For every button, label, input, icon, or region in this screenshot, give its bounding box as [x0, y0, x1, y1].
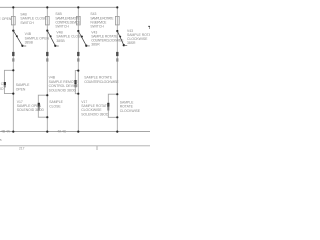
- contact block on rung1 branch: [4, 82, 6, 85]
- svg-text:V43SAMPLE ROTATECLOCKWISE38SR: V43SAMPLE ROTATECLOCKWISE38SR: [127, 29, 150, 45]
- svg-text:V4BSAMPLE REMOTECONTROL DEVICE: V4BSAMPLE REMOTECONTROL DEVICESOLENOID 3…: [49, 75, 80, 92]
- terminal block pair rung3: [77, 52, 79, 62]
- node rung2 branch bottom: [46, 116, 48, 118]
- svg-text:SAMPLEOPEN: SAMPLEOPEN: [16, 83, 30, 91]
- node rung1 branch bottom: [12, 93, 14, 95]
- svg-text:S4BSAMPLE CLOSESWITCH: S4BSAMPLE CLOSESWITCH: [20, 12, 47, 25]
- svg-text:S43SAMPLE ROTATEN-SERVICESWITC: S43SAMPLE ROTATEN-SERVICESWITCH: [90, 12, 114, 28]
- node rung4 / L2 junction: [116, 131, 118, 133]
- contact block on rung4 branch: [107, 103, 109, 107]
- fuse F3: [76, 16, 80, 25]
- svg-text:SAMPLEROTATECLOCKWISE: SAMPLEROTATECLOCKWISE: [120, 100, 141, 113]
- node rung3 branch bottom: [77, 93, 79, 95]
- svg-text:V17SAMPLE OPENSOLENOID 38OD: V17SAMPLE OPENSOLENOID 38OD: [17, 100, 45, 112]
- fuse F2: [45, 16, 49, 25]
- contact block on rung3 branch: [74, 80, 76, 84]
- fuse F4: [115, 16, 119, 25]
- node rung4 branch top: [116, 93, 118, 95]
- fuse F1: [11, 16, 15, 25]
- off-page connector arrow right edge: [148, 26, 150, 29]
- node rung2 / L1 junction: [46, 6, 48, 8]
- svg-text:217: 217: [19, 146, 25, 150]
- node rung1 branch top: [12, 69, 14, 71]
- node rung3 / L2 junction: [77, 131, 79, 133]
- svg-text:4A 4C: 4A 4C: [57, 130, 67, 134]
- switch S1 knife blade: [12, 29, 26, 46]
- wire rung1 bypass branch: [4, 70, 13, 93]
- node rung3 branch top: [77, 70, 79, 72]
- drawing border zone divider tick: [96, 146, 98, 150]
- switch S4 knife blade: [116, 30, 127, 46]
- node rung4 / L1 corner: [116, 6, 118, 8]
- svg-text:V17SAMPLE ROTATECLOCKWISESOLEN: V17SAMPLE ROTATECLOCKWISESOLENOID 38OD: [81, 100, 110, 117]
- node rung1 / L2 junction: [12, 131, 14, 133]
- wire rung 4 vertical: [116, 7, 118, 131]
- svg-text:V4BSAMPLE OPEN38SB: V4BSAMPLE OPEN38SB: [25, 32, 50, 45]
- wire rung3 bypass branch: [75, 71, 78, 94]
- switch S3 knife blade: [77, 30, 90, 47]
- wire rung 1 vertical: [12, 7, 14, 131]
- svg-text:4B 4A: 4B 4A: [1, 130, 11, 134]
- contact block on rung2 branch: [38, 103, 40, 107]
- svg-text:SAMPLECLOSE: SAMPLECLOSE: [49, 100, 63, 108]
- svg-text:B: B: [0, 138, 2, 142]
- node rung2 branch top: [46, 94, 48, 96]
- wire top rail L1: [0, 6, 117, 8]
- drawing border bottom: [0, 145, 150, 147]
- svg-text:E OPEN: E OPEN: [0, 17, 12, 21]
- svg-text:S4BSAMPLE REMOTECONTROL DEVICE: S4BSAMPLE REMOTECONTROL DEVICESWITCH: [55, 12, 81, 28]
- svg-text:OD: OD: [0, 87, 4, 91]
- node rung2 / L2 junction: [46, 131, 48, 133]
- svg-text:SAMPLE ROTATECOUNTERCLOCKWISE: SAMPLE ROTATECOUNTERCLOCKWISE: [84, 75, 119, 84]
- wire rung4 bypass branch: [108, 94, 117, 117]
- svg-text:V43SAMPLE ROTATECOUNTERCLOCKWI: V43SAMPLE ROTATECOUNTERCLOCKWISE38SR: [91, 30, 124, 46]
- wire bottom rail L2: [0, 131, 150, 133]
- terminal block pair rung2: [46, 52, 48, 62]
- terminal block pair rung4: [116, 52, 118, 62]
- terminal block pair rung1: [12, 52, 14, 62]
- wire rung 3 vertical: [77, 7, 79, 131]
- switch S2 knife blade: [46, 30, 59, 47]
- wire rung2 bypass branch: [38, 95, 47, 117]
- node rung3 / L1 junction: [77, 6, 79, 8]
- node rung1 / L1 junction: [12, 6, 14, 8]
- node rung4 branch bottom: [116, 116, 118, 118]
- svg-text:C: C: [1, 82, 4, 86]
- wire rung 2 vertical: [46, 7, 48, 131]
